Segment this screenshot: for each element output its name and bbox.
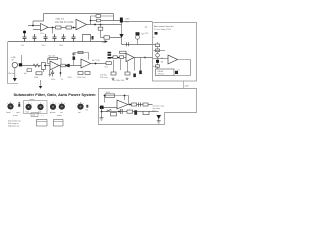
svg-text:Subwoofer Filter, Gain, Auto P: Subwoofer Filter, Gain, Auto Power Syste… bbox=[14, 92, 97, 97]
op-amp U5A bbox=[117, 100, 128, 109]
svg-text:10k 100n 10k: 10k 100n 10k bbox=[112, 80, 124, 82]
ticks VR1 bbox=[7, 102, 13, 104]
wire U1A feedback bend bbox=[33, 21, 44, 26]
resistor R44 bbox=[127, 110, 133, 113]
node J7 bbox=[60, 72, 62, 74]
ticks VR2 bbox=[25, 102, 31, 104]
svg-text:freq: freq bbox=[26, 111, 29, 114]
node J11 bbox=[111, 57, 113, 59]
resistor R19 bbox=[113, 56, 117, 59]
supply rail bbox=[8, 41, 105, 43]
capacitor C21 bbox=[156, 60, 159, 63]
resistor R14 bbox=[61, 64, 66, 67]
op-amp U2A bbox=[50, 61, 59, 70]
resistor R21 feedback bbox=[120, 51, 127, 53]
node C1 top bbox=[23, 31, 26, 34]
wire box input bbox=[153, 58, 169, 60]
wire U2A output bbox=[59, 65, 81, 67]
wire R8 branch bbox=[101, 25, 122, 38]
ticks VR3 bbox=[37, 102, 43, 104]
wire U2B output bbox=[91, 63, 108, 65]
svg-text:level: level bbox=[7, 112, 12, 114]
svg-text:sub: sub bbox=[32, 115, 35, 117]
node C9 junction blob bbox=[120, 18, 123, 23]
resistor R42 bbox=[143, 103, 148, 106]
ticks VR6 bbox=[77, 102, 83, 104]
svg-text:pwr: pwr bbox=[17, 112, 21, 114]
svg-text:100n: 100n bbox=[42, 45, 46, 47]
svg-text:100n 10k: 100n 10k bbox=[77, 77, 87, 79]
wire Q2 lead bbox=[137, 39, 139, 44]
ground GND10 bbox=[157, 119, 161, 123]
node J1 bbox=[32, 25, 34, 27]
svg-text:cut: cut bbox=[60, 111, 63, 114]
wire D1 to box bbox=[122, 38, 158, 45]
relay block K1 bbox=[156, 69, 175, 76]
connector box B1 bbox=[37, 120, 48, 127]
capacitor C6 bbox=[72, 34, 76, 42]
resistor R18 bbox=[106, 62, 111, 65]
svg-text:OUT: OUT bbox=[125, 22, 130, 24]
capacitor C4 bbox=[53, 34, 57, 42]
wire U1B output bbox=[87, 24, 122, 26]
capacitor C12b bbox=[67, 64, 69, 67]
svg-text:22k 22k: 22k 22k bbox=[48, 56, 57, 58]
resistor R23 bbox=[125, 72, 130, 75]
resistor R45 bbox=[143, 111, 149, 114]
wire bias lead bbox=[21, 55, 23, 63]
capacitor C1 bbox=[23, 34, 27, 42]
transistor Q1 bbox=[175, 71, 178, 74]
wire pot wiper lead bbox=[42, 69, 44, 72]
wire C5 lead bbox=[52, 28, 54, 34]
node J10 bbox=[144, 57, 146, 59]
svg-text:10k 33k 47n 120k: 10k 33k 47n 120k bbox=[55, 22, 74, 24]
LED PANEL bbox=[86, 105, 88, 108]
connector CON1 input jack bbox=[12, 62, 17, 67]
wire input to U2A bbox=[22, 65, 50, 67]
ground GND11 bbox=[100, 112, 104, 121]
svg-text:10u: 10u bbox=[21, 45, 24, 47]
wire into U3A bbox=[111, 57, 126, 59]
ground GND2 bbox=[112, 78, 115, 79]
capacitor C11 bbox=[51, 70, 54, 77]
diode D1 bbox=[119, 34, 123, 38]
svg-text:1M: 1M bbox=[161, 62, 164, 64]
wire U5A output bbox=[128, 104, 153, 106]
panel knob VR6 bbox=[77, 104, 83, 110]
wire ps feedback bbox=[105, 96, 129, 105]
capacitor C33 bbox=[134, 110, 137, 115]
node J23 bbox=[101, 111, 103, 113]
op-amp U1A bbox=[41, 24, 49, 32]
svg-text:10k log: 10k log bbox=[8, 73, 14, 75]
svg-text:100n: 100n bbox=[59, 45, 63, 47]
svg-text:20 sec delay 7555: 20 sec delay 7555 bbox=[154, 29, 172, 31]
resistor R17 fb bbox=[78, 51, 83, 53]
node J21 bbox=[124, 95, 126, 97]
svg-text:mains: mains bbox=[57, 115, 62, 117]
resistor R6 bbox=[66, 26, 72, 29]
resistor R7 bbox=[98, 27, 103, 30]
svg-text:25V min: 25V min bbox=[100, 77, 108, 79]
svg-text:delay: delay bbox=[153, 66, 158, 68]
resistor R43 bbox=[111, 113, 117, 116]
resistor R32 bbox=[155, 65, 159, 67]
capacitor C10 bbox=[19, 63, 22, 66]
wire U2B feedback top bbox=[74, 53, 89, 60]
node J24 bbox=[118, 111, 120, 113]
svg-text:150k: 150k bbox=[34, 77, 38, 79]
node J3 bbox=[73, 27, 75, 29]
wire U2 second feedback bbox=[91, 15, 114, 17]
node J12 bbox=[118, 57, 120, 59]
ground GND1 bbox=[14, 68, 16, 78]
svg-text:xover: xover bbox=[30, 99, 35, 101]
capacitor C2 bbox=[33, 34, 37, 42]
wire U2A feedback bbox=[48, 59, 62, 66]
node J6 bbox=[44, 65, 46, 67]
LED D5 bbox=[156, 54, 160, 58]
wire box stack top bbox=[154, 50, 166, 52]
wire stack lead bbox=[157, 42, 159, 70]
ground GND5 bbox=[49, 70, 52, 77]
capacitor C8 fb bbox=[96, 15, 101, 18]
capacitor C31 bbox=[139, 102, 141, 106]
svg-text:1uF bip: 1uF bip bbox=[100, 75, 108, 77]
arrow supply bbox=[105, 40, 109, 43]
connector box B2 bbox=[54, 120, 64, 127]
transistor Q2 bbox=[136, 35, 140, 39]
wire cap branch 2 bbox=[60, 66, 62, 77]
svg-text:12V DC: 12V DC bbox=[158, 74, 165, 76]
panel knob VR1 bbox=[7, 103, 13, 109]
svg-text:gain: gain bbox=[38, 112, 42, 114]
node J8 bbox=[66, 65, 68, 67]
svg-text:sig: sig bbox=[145, 27, 148, 29]
power supply frame bbox=[99, 89, 197, 125]
resistor R15 bbox=[78, 72, 83, 75]
svg-text:220n: 220n bbox=[68, 77, 72, 79]
op-amp U3A bbox=[126, 53, 134, 61]
wire under row leads bbox=[114, 58, 141, 73]
svg-text:RELAY: RELAY bbox=[158, 70, 165, 73]
wire top feedback rail bbox=[44, 14, 114, 22]
diode D10 bbox=[157, 115, 162, 119]
panel knob VR2 bbox=[26, 104, 32, 110]
wire U3A output bbox=[134, 57, 153, 59]
svg-text:220k 1%: 220k 1% bbox=[56, 19, 65, 21]
wire ps input bbox=[99, 107, 118, 109]
capacitor C30 bbox=[100, 106, 104, 109]
op-amp U1B bbox=[76, 19, 87, 29]
wire U1A inputs bbox=[28, 26, 41, 30]
resistor R22 bbox=[111, 72, 116, 75]
capacitor C14 electrolytic bbox=[108, 57, 112, 59]
wire U1A output bbox=[48, 27, 76, 29]
svg-text:Q1: Q1 bbox=[178, 69, 180, 71]
auto power box bbox=[153, 23, 197, 82]
svg-text:100k: 100k bbox=[106, 92, 110, 94]
svg-text:Auto power detector: Auto power detector bbox=[154, 25, 174, 28]
wire to auto power box bbox=[122, 21, 153, 23]
resistor R2 bbox=[27, 69, 32, 72]
capacitor C18 bbox=[136, 32, 140, 35]
svg-text:to power amp: to power amp bbox=[153, 105, 164, 108]
capacitor C16 bbox=[139, 71, 142, 75]
svg-text:+15V: +15V bbox=[125, 19, 131, 21]
node J2 bbox=[52, 27, 54, 29]
resistor R5 bbox=[56, 26, 62, 29]
capacitor C17 ticks bbox=[127, 42, 129, 46]
svg-text:high pass out: high pass out bbox=[8, 124, 20, 127]
wire left return bbox=[8, 42, 19, 84]
switch SW2 bbox=[106, 110, 111, 112]
capacitor C5 bbox=[62, 34, 66, 42]
resistor R31 bbox=[155, 49, 159, 52]
wire ps lower bbox=[102, 108, 159, 112]
wire U2 upper feedback bbox=[91, 16, 123, 25]
resistor R41 bbox=[132, 103, 137, 106]
resistor R16 bbox=[85, 72, 90, 75]
svg-text:470n: 470n bbox=[51, 79, 55, 81]
resistor R20 bbox=[120, 56, 124, 59]
panel knob VR3 bbox=[37, 104, 43, 110]
ticks VR4 bbox=[50, 102, 56, 104]
node J9 bbox=[95, 63, 97, 65]
svg-text:led: led bbox=[86, 110, 88, 112]
panel group box bbox=[24, 101, 48, 114]
ticks VR5 bbox=[59, 102, 65, 104]
svg-text:in: in bbox=[153, 37, 154, 39]
svg-text:in out: in out bbox=[13, 114, 18, 117]
ground GND3 bbox=[126, 78, 129, 79]
wire U4A output loop bbox=[174, 60, 191, 76]
capacitor C12 bbox=[73, 57, 76, 60]
link loop L1 bbox=[83, 35, 91, 42]
node J4 bbox=[94, 24, 96, 26]
capacitor C32 bbox=[121, 109, 123, 114]
capacitor C7 bbox=[92, 36, 94, 40]
ground GND4 mid bbox=[40, 80, 42, 86]
svg-text:4k7 12k: 4k7 12k bbox=[92, 60, 101, 62]
panel knob VR4 bbox=[50, 104, 56, 110]
capacitor C20 bbox=[155, 32, 158, 35]
svg-text:1k: 1k bbox=[61, 79, 63, 81]
resistor R9 fb bbox=[97, 19, 101, 22]
wire D1 lead bbox=[121, 23, 123, 35]
resistor R8 bbox=[104, 36, 110, 39]
potentiometer VR1a bbox=[41, 63, 45, 70]
wire U5A minus lead bbox=[121, 109, 123, 112]
op-amp U4A bbox=[168, 55, 178, 64]
capacitor C13 electrolytic bbox=[108, 52, 112, 54]
node J22 bbox=[129, 104, 131, 106]
capacitor C3 bbox=[44, 34, 48, 42]
node J13 bbox=[90, 20, 92, 22]
svg-text:4u7: 4u7 bbox=[24, 73, 27, 75]
svg-text:phase: phase bbox=[50, 112, 56, 114]
node J5 bbox=[100, 24, 102, 26]
resistor R30 bbox=[155, 44, 159, 47]
resistor R1 zigzag bbox=[33, 64, 40, 67]
resistor R12 feedback bbox=[49, 57, 58, 59]
resistor R40 feedback bbox=[105, 94, 115, 97]
switch SW1 bbox=[18, 104, 20, 107]
resistor R13 bbox=[36, 72, 42, 75]
wire box to panel bbox=[183, 81, 185, 89]
op-amp U2B bbox=[81, 59, 91, 68]
capacitor C15 bbox=[133, 74, 136, 78]
panel knob VR5 bbox=[59, 104, 65, 110]
node J20 bbox=[104, 95, 106, 97]
